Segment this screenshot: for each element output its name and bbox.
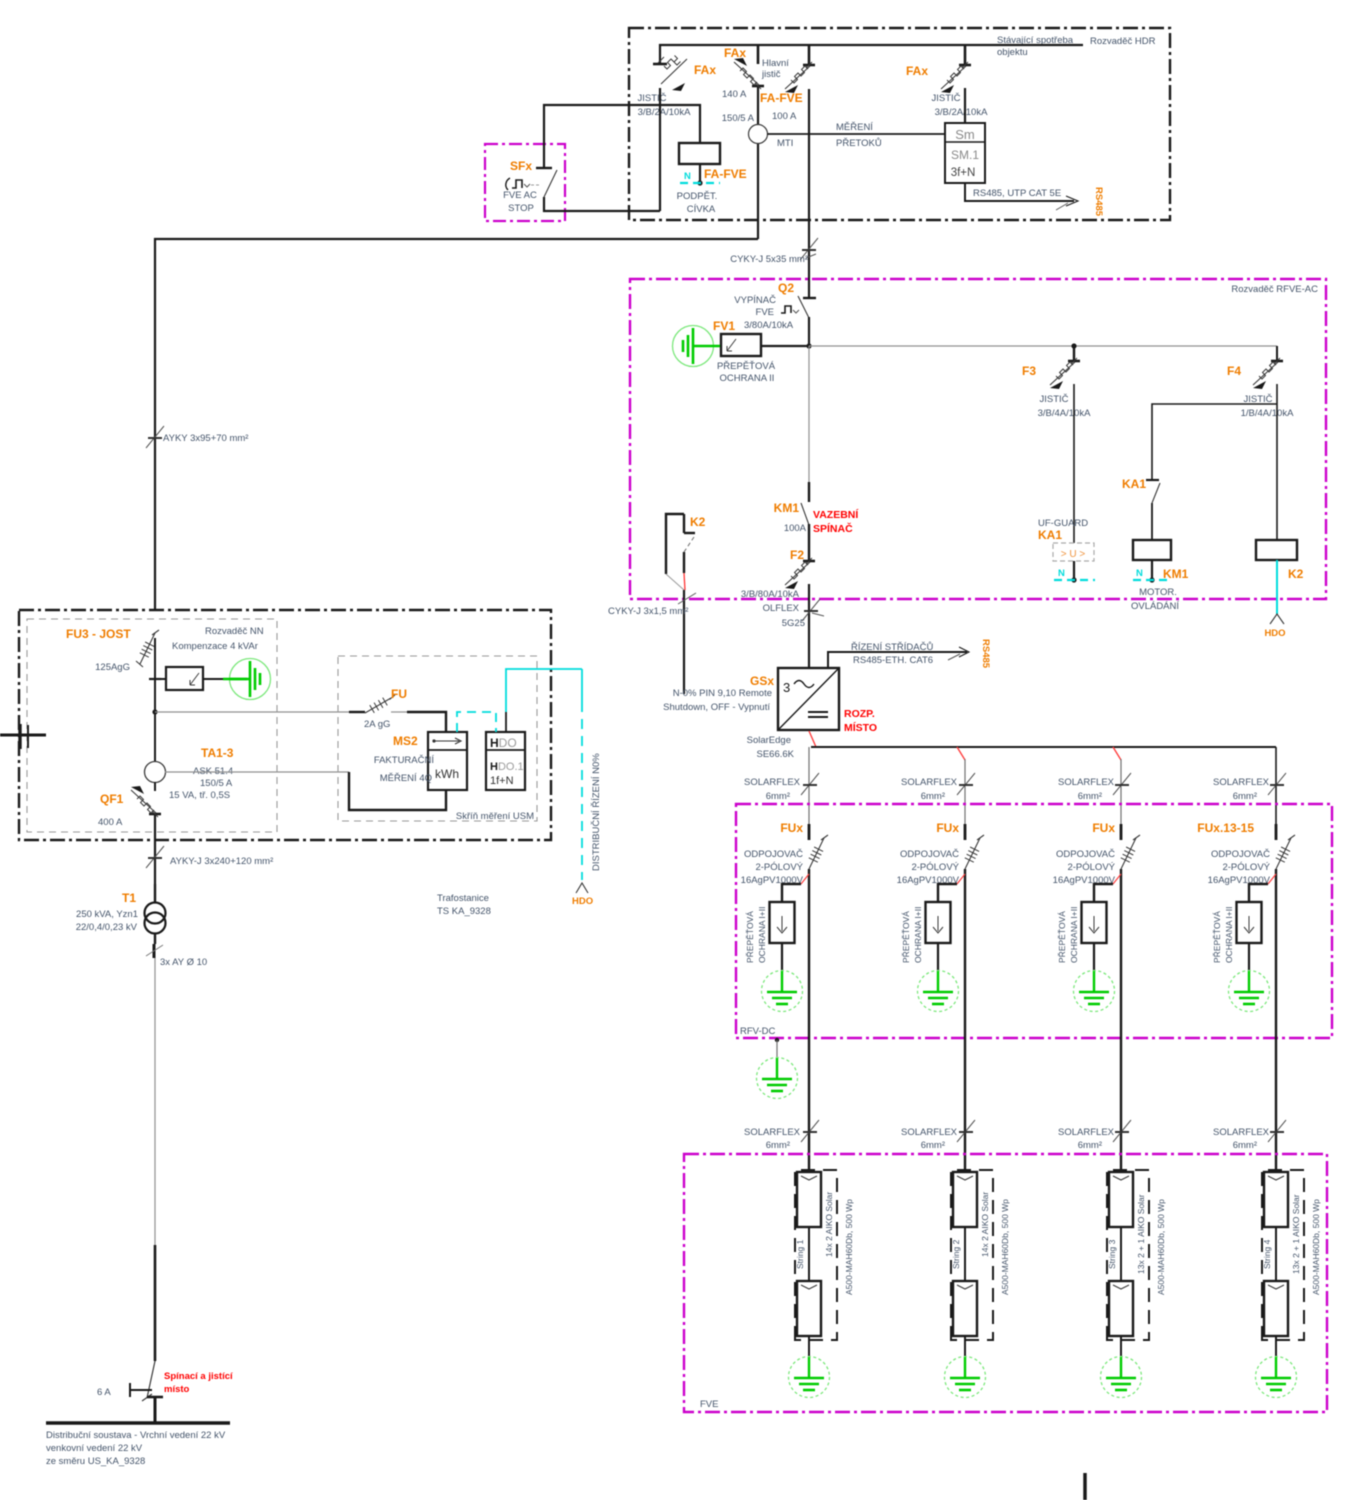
wire string4 to FVE xyxy=(1275,869,1277,1172)
switch SFx FVE AC STOP xyxy=(506,168,557,197)
label FUx.13-15 xyxy=(1197,821,1254,835)
label TA1-3 xyxy=(201,746,234,760)
svg-text:OCHRANA I+II: OCHRANA I+II xyxy=(1224,907,1234,963)
label CYKY-J 3x1,5 mm2 xyxy=(608,606,688,617)
label 14x 2 AIKO Solar s2 xyxy=(980,1192,990,1257)
label PŘEPĚŤOVÁ OCHRANA I+II string1 xyxy=(745,907,767,963)
label 400 A xyxy=(98,817,123,828)
label PŘEPĚŤOVÁ OCHRANA I+II string3 xyxy=(1057,907,1079,963)
svg-text:VAZEBNÍ: VAZEBNÍ xyxy=(813,508,859,521)
fuse compensation branch xyxy=(149,667,230,690)
wire AC distribution gray xyxy=(809,345,1277,347)
breaker QF1 400 A xyxy=(131,786,161,817)
relay UF-GUARD KA1 xyxy=(1053,543,1094,561)
svg-text:JISTIČ: JISTIČ xyxy=(637,93,666,104)
svg-text:PŘEPĚŤOVÁ: PŘEPĚŤOVÁ xyxy=(901,911,911,963)
PV string 3 modules xyxy=(1107,1170,1149,1340)
label AYKY 3x95+70 mm2 xyxy=(163,433,248,444)
svg-text:SOLARFLEX: SOLARFLEX xyxy=(901,777,958,788)
cable 3x AY Ø 10 xyxy=(146,944,163,958)
label Spínací a jistící místo red xyxy=(164,1371,233,1395)
label MTI xyxy=(777,138,793,149)
label FA-FVE at coil xyxy=(704,167,747,181)
wire TA secondary xyxy=(165,771,349,773)
label T1 xyxy=(122,891,136,905)
wire bus HDR xyxy=(660,45,1083,65)
label F2 xyxy=(790,548,804,562)
label 14x 2 AIKO Solar s1 xyxy=(824,1192,834,1257)
svg-text:6mm²: 6mm² xyxy=(1233,1140,1257,1151)
svg-text:6mm²: 6mm² xyxy=(766,791,790,802)
svg-text:SolarEdge: SolarEdge xyxy=(747,735,791,746)
disconnector FUx.13-15 string4 xyxy=(1276,824,1295,869)
svg-text:PŘEPĚŤOVÁ: PŘEPĚŤOVÁ xyxy=(1057,911,1067,963)
ground RFV-DC enclosure xyxy=(757,1038,798,1099)
svg-text:FAx: FAx xyxy=(724,46,746,60)
fuse switch FU3 125AgG xyxy=(136,630,159,667)
svg-text:15 VA, tř. 0,5S: 15 VA, tř. 0,5S xyxy=(169,790,230,801)
label SOLARFLEX 6mm2 row1 s2 xyxy=(901,777,958,802)
svg-text:RS485-ETH. CAT6: RS485-ETH. CAT6 xyxy=(853,655,933,666)
svg-text:OLFLEX: OLFLEX xyxy=(763,603,800,614)
svg-text:6mm²: 6mm² xyxy=(921,1140,945,1151)
label MOTOR. OVLÁDÁNÍ xyxy=(1131,587,1179,612)
label CYKY-J 5x35 mm2 xyxy=(730,254,808,265)
label SOLARFLEX 6mm2 row2 s2 xyxy=(901,1127,958,1151)
svg-text:F4: F4 xyxy=(1227,364,1241,378)
label SOLARFLEX 6mm2 row2 s4 xyxy=(1213,1127,1270,1151)
svg-text:100 A: 100 A xyxy=(772,111,797,122)
coil K2 xyxy=(1256,540,1297,560)
contact K2 remote xyxy=(666,514,695,694)
label FVE AC STOP xyxy=(503,190,537,214)
svg-text:Hlavní: Hlavní xyxy=(762,58,789,69)
disconnector FUx string3 xyxy=(1121,824,1140,869)
svg-text:SOLARFLEX: SOLARFLEX xyxy=(744,1127,801,1138)
svg-text:CYKY-J 3x1,5 mm²: CYKY-J 3x1,5 mm² xyxy=(608,606,688,617)
svg-text:FAx: FAx xyxy=(906,64,928,78)
svg-text:FV1: FV1 xyxy=(713,319,735,333)
label SFx xyxy=(510,159,532,173)
svg-text:5G25: 5G25 xyxy=(782,618,805,629)
cable CYKY-J 5x35 mm2 xyxy=(800,238,818,260)
svg-text:150/5 A: 150/5 A xyxy=(722,113,755,124)
svg-text:2-PÓLOVÝ: 2-PÓLOVÝ xyxy=(911,862,959,873)
label PŘEPĚŤOVÁ OCHRANA I+II string4 xyxy=(1212,907,1234,963)
svg-text:OVLÁDÁNÍ: OVLÁDÁNÍ xyxy=(1131,601,1179,612)
svg-text:F3: F3 xyxy=(1022,364,1036,378)
disconnector FUx string2 xyxy=(965,824,984,869)
label 100A xyxy=(784,523,807,534)
label 2A gG xyxy=(364,719,390,730)
label SolarEdge SE66.6K xyxy=(747,735,795,760)
label OLFLEX 5G25 xyxy=(763,603,805,629)
busbar distribution 22 kV xyxy=(46,1421,230,1424)
svg-text:Skříň měření USM: Skříň měření USM xyxy=(456,811,534,822)
svg-text:2-PÓLOVÝ: 2-PÓLOVÝ xyxy=(1222,862,1270,873)
coil FA-FVE PODPĚT. CÍVKA xyxy=(679,143,720,164)
svg-text:MĚŘENÍ: MĚŘENÍ xyxy=(836,122,873,133)
enclosure RFV-DC xyxy=(736,804,1332,1038)
label PŘEPĚŤOVÁ OCHRANA II xyxy=(717,361,776,384)
svg-text:3/80A/10kA: 3/80A/10kA xyxy=(744,320,794,331)
label 140 A xyxy=(722,89,747,100)
svg-text:150/5 A: 150/5 A xyxy=(200,778,233,789)
svg-text:FU: FU xyxy=(391,687,407,701)
net N below UF-GUARD xyxy=(1054,568,1095,580)
busbar stub left xyxy=(0,724,46,749)
label Distribuční soustava xyxy=(46,1430,226,1467)
svg-text:ODPOJOVAČ: ODPOJOVAČ xyxy=(900,849,959,860)
ground compensation xyxy=(223,659,271,700)
label FUx string3 xyxy=(1092,821,1115,835)
svg-text:RS485: RS485 xyxy=(1093,187,1104,217)
enclosure SFx FVE AC STOP xyxy=(485,144,565,221)
svg-text:Distribuční soustava - Vrchní: Distribuční soustava - Vrchní vedení 22 … xyxy=(46,1430,226,1441)
svg-text:FVE: FVE xyxy=(756,307,774,318)
svg-text:SOLARFLEX: SOLARFLEX xyxy=(744,777,801,788)
label MS2 xyxy=(393,734,418,748)
svg-text:String 4: String 4 xyxy=(1262,1239,1272,1269)
svg-text:125AgG: 125AgG xyxy=(95,662,130,673)
label SOLARFLEX 6mm2 row1 s1 xyxy=(744,777,801,802)
svg-text:1f+N: 1f+N xyxy=(490,775,514,787)
label QF1 xyxy=(100,792,124,806)
wire string3 to FVE xyxy=(1120,869,1122,1172)
label FAKTURAČNÍ MĚŘENÍ 4Q xyxy=(374,755,435,784)
cable AYKY 3x95+70 mm2 xyxy=(146,426,164,448)
svg-text:FUx: FUx xyxy=(1092,821,1115,835)
wire F3 to UF-GUARD xyxy=(1073,384,1075,543)
label 13x 2 + 1 AIKO Solar s3 xyxy=(1136,1194,1146,1274)
svg-text:HDO: HDO xyxy=(572,896,593,907)
wire QF1 down to T1 xyxy=(154,815,156,884)
net N below KM1 coil xyxy=(1133,568,1171,580)
label 150/5 A xyxy=(722,113,755,124)
svg-text:HDO.1: HDO.1 xyxy=(490,761,524,773)
net N cyan xyxy=(680,171,720,183)
label FVE xyxy=(700,1399,718,1410)
wire string1 to FVE xyxy=(808,869,810,1172)
svg-text:FVE: FVE xyxy=(700,1399,718,1410)
wire string4 drop xyxy=(1275,747,1277,824)
net label HDO xyxy=(1264,628,1285,639)
label ODPOJOVAČ string3 xyxy=(1053,849,1116,886)
wire 140A breaker to CT and left corner xyxy=(757,87,759,239)
svg-text:3: 3 xyxy=(783,680,790,695)
breaker FA-FVE 100 A xyxy=(785,62,815,93)
label 3/B/80A/10kA xyxy=(741,589,800,600)
label SOLARFLEX 6mm2 row1 s4 xyxy=(1213,777,1270,802)
wire string3 drop xyxy=(1113,747,1121,824)
wire F2 to inverter xyxy=(808,584,810,668)
label ODPOJOVAČ string2 xyxy=(897,849,960,886)
surge arrester FV1 PŘEPĚŤOVÁ OCHRANA II xyxy=(721,334,809,356)
wire string1 drop xyxy=(808,747,810,824)
breaker F3 JISTIČ 3/B/4A/10kA xyxy=(1050,358,1080,389)
page edge mark bottom xyxy=(1083,1473,1087,1500)
breaker F2 3/B/80A/10kA xyxy=(785,558,815,589)
cable OLFLEX 5G25 xyxy=(802,599,824,621)
label ASK 51.4 150/5 A 15 VA xyxy=(169,766,233,801)
surge arrester string4 xyxy=(1237,874,1277,943)
svg-text:String 2: String 2 xyxy=(951,1239,961,1269)
svg-text:100A: 100A xyxy=(784,523,807,534)
svg-text:ze směru US_KA_9328: ze směru US_KA_9328 xyxy=(46,1456,145,1467)
wire branch to KA1 contact xyxy=(1152,404,1277,479)
svg-text:Spínací a jistící: Spínací a jistící xyxy=(164,1371,233,1382)
svg-text:MÍSTO: MÍSTO xyxy=(844,721,877,734)
wire SFx bottom xyxy=(544,197,660,211)
wire FU3 down xyxy=(154,638,156,772)
label Rozvaděč RFVE-AC xyxy=(1231,284,1318,295)
receiver HDO box xyxy=(486,732,525,790)
svg-text:3f+N: 3f+N xyxy=(951,167,976,179)
svg-text:400 A: 400 A xyxy=(98,817,123,828)
label F3 xyxy=(1022,364,1036,378)
svg-text:3/B/2A/10kA: 3/B/2A/10kA xyxy=(638,107,691,118)
svg-text:N: N xyxy=(1136,568,1143,579)
svg-text:Rozvaděč HDR: Rozvaděč HDR xyxy=(1090,36,1156,47)
label FUx string2 xyxy=(936,821,959,835)
label PODPĚT. CÍVKA xyxy=(677,191,718,215)
svg-text:PŘETOKŮ: PŘETOKŮ xyxy=(836,137,882,149)
svg-text:Rozvaděč NN: Rozvaděč NN xyxy=(205,626,264,637)
svg-text:objektu: objektu xyxy=(997,47,1028,58)
label Skříň měření USM xyxy=(456,811,534,822)
breaker FAx (JISTIČ 3/B/2A/10kA right) xyxy=(941,62,971,93)
svg-text:2-PÓLOVÝ: 2-PÓLOVÝ xyxy=(1067,862,1115,873)
svg-text:3x AY Ø 10: 3x AY Ø 10 xyxy=(160,957,207,968)
svg-text:A500-MAH60Db, 500 Wp: A500-MAH60Db, 500 Wp xyxy=(1311,1199,1321,1295)
label GSx xyxy=(750,674,774,688)
svg-text:SOLARFLEX: SOLARFLEX xyxy=(901,1127,958,1138)
svg-text:OCHRANA I+II: OCHRANA I+II xyxy=(757,907,767,963)
node to USM metering xyxy=(152,709,349,714)
svg-text:Rozvaděč RFVE-AC: Rozvaděč RFVE-AC xyxy=(1231,284,1318,295)
svg-text:FAKTURAČNÍ: FAKTURAČNÍ xyxy=(374,755,435,766)
svg-text:AYKY-J 3x240+120 mm²: AYKY-J 3x240+120 mm² xyxy=(170,856,273,867)
svg-text:FUx.13-15: FUx.13-15 xyxy=(1197,821,1254,835)
label UF-GUARD KA1 xyxy=(1038,518,1088,542)
label F4 xyxy=(1227,364,1241,378)
wire drop to 140A breaker xyxy=(757,45,760,64)
label A500-MAH60Db 500 Wp s3 xyxy=(1156,1199,1166,1295)
label String 3 xyxy=(1107,1239,1117,1269)
ground SPD string1 xyxy=(762,943,803,1012)
svg-text:SOLARFLEX: SOLARFLEX xyxy=(1058,1127,1115,1138)
wire SFx top xyxy=(544,105,660,168)
svg-text:MOTOR.: MOTOR. xyxy=(1139,587,1177,598)
svg-text:JISTIČ: JISTIČ xyxy=(1039,394,1068,405)
ground string4 xyxy=(1256,1336,1297,1398)
svg-text:HDO: HDO xyxy=(1264,628,1285,639)
label SOLARFLEX 6mm2 row2 s1 xyxy=(744,1127,801,1151)
current transformer MTI 150/5 A xyxy=(749,125,768,144)
svg-text:String 3: String 3 xyxy=(1107,1239,1117,1269)
label AYKY-J 3x240+120 mm2 xyxy=(170,856,273,867)
svg-text:AYKY 3x95+70 mm²: AYKY 3x95+70 mm² xyxy=(163,433,248,444)
ground string3 xyxy=(1101,1336,1142,1398)
label Hlavní jistič xyxy=(761,58,789,80)
svg-text:VYPÍNAČ: VYPÍNAČ xyxy=(734,295,776,306)
svg-text:venkovní vedení 22 kV: venkovní vedení 22 kV xyxy=(46,1443,143,1454)
label RS485, UTP CAT 5E xyxy=(973,188,1061,199)
label JISTIČ 3/B/2A/10kA left xyxy=(637,93,691,118)
wire coil to N xyxy=(697,164,702,186)
svg-text:FAx: FAx xyxy=(694,63,716,77)
label ROZP. MÍSTO red xyxy=(844,708,877,734)
label PŘEPĚŤOVÁ OCHRANA I+II string2 xyxy=(901,907,923,963)
ground SPD string2 xyxy=(918,943,959,1012)
svg-text:3/B/80A/10kA: 3/B/80A/10kA xyxy=(741,589,800,600)
svg-text:místo: místo xyxy=(164,1384,190,1395)
svg-text:kWh: kWh xyxy=(435,767,459,781)
label KM1 coil xyxy=(1163,567,1189,581)
label K2 coil xyxy=(1288,567,1304,581)
svg-text:Q2: Q2 xyxy=(778,281,794,295)
svg-text:13x 2 + 1 AIKO Solar: 13x 2 + 1 AIKO Solar xyxy=(1291,1194,1301,1274)
wire down to KM1 gray xyxy=(808,346,810,482)
enclosure Rozvaděč NN xyxy=(19,610,551,840)
svg-text:MTI: MTI xyxy=(777,138,793,149)
label SOLARFLEX 6mm2 row2 s3 xyxy=(1058,1127,1115,1151)
label A500-MAH60Db 500 Wp s4 xyxy=(1311,1199,1321,1295)
label Q2 xyxy=(778,281,794,295)
wire K2 coil to HDO cyan xyxy=(1270,560,1284,624)
svg-text:RFV-DC: RFV-DC xyxy=(740,1026,776,1037)
ground SPD string4 xyxy=(1229,943,1270,1012)
svg-text:Kompenzace 4 kVAr: Kompenzace 4 kVAr xyxy=(172,641,258,652)
svg-text:14x 2 AIKO Solar: 14x 2 AIKO Solar xyxy=(980,1192,990,1257)
ground FV1 xyxy=(673,326,721,367)
surge arrester PŘEPĚŤOVÁ OCHRANA I+II string1 xyxy=(770,874,810,943)
svg-text:PODPĚT.: PODPĚT. xyxy=(677,191,718,202)
svg-text:ODPOJOVAČ: ODPOJOVAČ xyxy=(1056,849,1115,860)
svg-text:ŘÍZENÍ STŘÍDAČŮ: ŘÍZENÍ STŘÍDAČŮ xyxy=(851,641,933,653)
enclosure FVE xyxy=(684,1154,1327,1412)
wire to undervoltage coil xyxy=(660,105,700,143)
transformer T1 xyxy=(145,884,166,944)
svg-text:ROZP.: ROZP. xyxy=(844,708,875,720)
label FV1 xyxy=(713,319,735,333)
svg-text:KM1: KM1 xyxy=(774,501,800,515)
svg-text:1/B/4A/10kA: 1/B/4A/10kA xyxy=(1241,408,1294,419)
enclosure Skříň měření USM gray xyxy=(338,656,537,821)
label JISTIČ 3/B/2A/10kA right xyxy=(931,93,988,118)
breaker FAx (JISTIČ 3/B/2A/10kA left) xyxy=(653,56,687,92)
label ŘÍZENÍ STŘÍDAČŮ RS485-ETH. CAT6 xyxy=(851,641,933,666)
net label RS485 vertical at inverter xyxy=(980,639,991,669)
breaker F4 JISTIČ 1/B/4A/10kA xyxy=(1253,358,1283,389)
svg-text:MS2: MS2 xyxy=(393,734,418,748)
label SOLARFLEX 6mm2 row1 s3 xyxy=(1058,777,1115,802)
contact KA1 xyxy=(1146,480,1160,540)
svg-text:RS485, UTP CAT 5E: RS485, UTP CAT 5E xyxy=(973,188,1061,199)
svg-text:TS KA_9328: TS KA_9328 xyxy=(437,906,491,917)
svg-text:SOLARFLEX: SOLARFLEX xyxy=(1213,777,1270,788)
svg-text:6 A: 6 A xyxy=(97,1387,111,1398)
wire TA to QF1 xyxy=(154,782,156,791)
label N-0% PIN 9,10 Remote Shutdown xyxy=(663,688,772,713)
svg-text:22/0,4/0,23 kV: 22/0,4/0,23 kV xyxy=(76,922,138,933)
label JISTIČ 1/B/4A/10kA xyxy=(1241,394,1294,419)
svg-text:OCHRANA I+II: OCHRANA I+II xyxy=(913,907,923,963)
svg-text:SFx: SFx xyxy=(510,159,532,173)
wire FAx right to Sm meter xyxy=(964,88,966,123)
inverter GSx SolarEdge xyxy=(778,668,839,730)
svg-text:PŘEPĚŤOVÁ: PŘEPĚŤOVÁ xyxy=(745,911,755,963)
svg-text:FUx: FUx xyxy=(780,821,803,835)
svg-text:F2: F2 xyxy=(790,548,804,562)
ground string1 xyxy=(789,1336,830,1398)
current transformer TA1-3 xyxy=(145,762,166,783)
disconnector FUx string1 xyxy=(809,824,828,869)
label FAx left xyxy=(694,63,716,77)
svg-text:PŘEPĚŤOVÁ: PŘEPĚŤOVÁ xyxy=(1212,911,1222,963)
wire CT loop to MS2 xyxy=(349,772,446,810)
label String 2 xyxy=(951,1239,961,1269)
PV string 4 modules xyxy=(1262,1170,1304,1340)
enclosure Rozvaděč RFVE-AC xyxy=(630,279,1326,599)
wire HDO to MS2 cyan dashed xyxy=(457,712,496,732)
svg-text:FA-FVE: FA-FVE xyxy=(760,91,803,105)
label 250 kVA Yzn1 22/0,4/0,23 kV xyxy=(76,909,138,933)
svg-text:GSx: GSx xyxy=(750,674,774,688)
svg-text:DISTRIBUČNÍ ŘÍZENÍ N0%: DISTRIBUČNÍ ŘÍZENÍ N0% xyxy=(591,753,602,871)
wire ŘÍZENÍ STŘÍDAČŮ RS485 xyxy=(828,647,969,668)
label MĚŘENÍ PŘETOKŮ xyxy=(836,122,882,149)
svg-text:140 A: 140 A xyxy=(722,89,747,100)
svg-text:SOLARFLEX: SOLARFLEX xyxy=(1213,1127,1270,1138)
label String 4 xyxy=(1262,1239,1272,1269)
wire breaker FAx left down to corner xyxy=(659,88,661,211)
svg-text:SE66.6K: SE66.6K xyxy=(757,749,795,760)
svg-text:CYKY-J 5x35 mm²: CYKY-J 5x35 mm² xyxy=(730,254,808,265)
label Rozvaděč NN Kompenzace 4 kVAr xyxy=(172,626,264,652)
surge arrester string3 xyxy=(1082,874,1122,943)
wire string2 to FVE xyxy=(964,869,966,1172)
label RFV-DC xyxy=(740,1026,776,1037)
svg-text:STOP: STOP xyxy=(508,203,534,214)
wire string2 drop xyxy=(957,747,965,824)
wire MV riser xyxy=(154,958,156,1361)
PV string 2 modules xyxy=(951,1170,993,1340)
svg-text:SOLARFLEX: SOLARFLEX xyxy=(1058,777,1115,788)
node F3 tap xyxy=(1071,343,1076,360)
svg-text:String 1: String 1 xyxy=(795,1239,805,1269)
label ODPOJOVAČ string4 xyxy=(1208,849,1271,886)
label FU3 - JOST xyxy=(66,627,131,641)
svg-text:> U >: > U > xyxy=(1061,549,1086,560)
svg-text:A500-MAH60Db, 500 Wp: A500-MAH60Db, 500 Wp xyxy=(1156,1199,1166,1295)
label Trafostanice TS KA_9328 xyxy=(437,893,491,917)
label FAx main xyxy=(724,46,746,60)
label FU xyxy=(391,687,407,701)
svg-text:FA-FVE: FA-FVE xyxy=(704,167,747,181)
ground SPD string3 xyxy=(1074,943,1115,1012)
surge arrester string2 xyxy=(926,874,966,943)
svg-text:jistič: jistič xyxy=(761,69,781,80)
svg-text:6mm²: 6mm² xyxy=(1078,1140,1102,1151)
label 3x AY Ø 10 xyxy=(160,957,207,968)
cable SOLARFLEX marks row2 xyxy=(801,1120,1286,1142)
label JISTIČ 3/B/4A/10kA xyxy=(1038,394,1091,419)
label A500-MAH60Db 500 Wp s1 xyxy=(844,1199,854,1295)
wire FA-FVE down through HDR border xyxy=(808,89,810,298)
cable AYKY-J 3x240+120 mm2 xyxy=(146,846,164,868)
svg-text:6mm²: 6mm² xyxy=(1078,791,1102,802)
